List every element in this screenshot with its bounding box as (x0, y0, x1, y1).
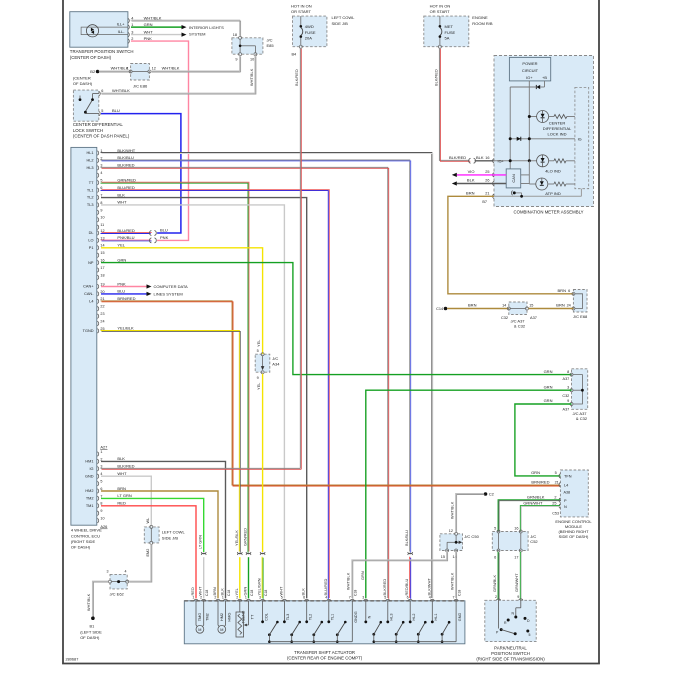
svg-text:GRN/WHT: GRN/WHT (514, 573, 519, 592)
svg-text:BLU: BLU (160, 227, 168, 232)
svg-text:TRANSFER POSITION SWITCH: TRANSFER POSITION SWITCH (70, 49, 134, 54)
meter internal B7 line (494, 195, 581, 197)
engine control module (box) (560, 470, 588, 517)
svg-text:17: 17 (514, 556, 518, 560)
svg-text:18: 18 (100, 273, 104, 277)
svg-text:(RIGHT SIDE: (RIGHT SIDE (71, 539, 96, 544)
wire GRN connector to actuator TT (248, 557, 250, 598)
svg-text:5: 5 (494, 527, 496, 531)
meter pin VIO 25 with arrow (493, 173, 494, 177)
wire WHT ECU GND down to left cowl side J/B (101, 476, 151, 525)
svg-text:GNDG: GNDG (354, 611, 358, 622)
svg-text:TFN: TFN (564, 475, 572, 479)
svg-text:LO: LO (88, 239, 93, 243)
svg-text:SIDE J/B: SIDE J/B (162, 535, 179, 540)
svg-text:WHT/BLK: WHT/BLK (449, 572, 454, 590)
svg-text:IG: IG (578, 137, 582, 141)
LED 4LO indicator (537, 155, 549, 167)
svg-text:GRN: GRN (243, 587, 248, 596)
svg-text:M: M (198, 628, 201, 632)
meter inner IG rail box (575, 87, 589, 188)
svg-text:BLK: BLK (117, 456, 125, 461)
svg-text:B7: B7 (482, 200, 487, 204)
svg-text:BLK/WHT: BLK/WHT (426, 578, 431, 596)
svg-text:BLK/RED: BLK/RED (294, 69, 299, 86)
svg-text:HOT IN ON: HOT IN ON (430, 4, 451, 9)
svg-text:A37: A37 (563, 408, 570, 412)
svg-text:10: 10 (100, 517, 104, 521)
meter internal left rail (509, 87, 511, 169)
svg-text:25: 25 (485, 170, 489, 174)
svg-text:YEL/BLK: YEL/BLK (234, 530, 239, 546)
svg-text:DIFFERENTIAL: DIFFERENTIAL (543, 126, 572, 131)
wire BLU lock switch to ECU pin12 (101, 114, 181, 233)
svg-text:OF DASH): OF DASH) (71, 545, 91, 550)
svg-text:7: 7 (349, 596, 351, 600)
svg-text:C18: C18 (264, 590, 268, 596)
svg-text:TRANSFER SHIFT ACTUATOR: TRANSFER SHIFT ACTUATOR (294, 650, 355, 655)
svg-text:CONTROL ECU: CONTROL ECU (71, 533, 100, 538)
actuator right ground rail (374, 641, 456, 643)
junction connector J/C E86 (131, 64, 150, 81)
svg-text:IG+: IG+ (498, 159, 505, 163)
svg-text:HM2: HM2 (220, 613, 224, 621)
svg-text:PARK/NEUTRAL: PARK/NEUTRAL (494, 646, 527, 651)
svg-text:25: 25 (552, 501, 556, 505)
lamp loop wiring inside transfer position switch (81, 27, 128, 34)
wire BRN J/C A37C32 to J/C E68 pin24 (529, 308, 574, 310)
svg-text:B2: B2 (90, 69, 96, 74)
svg-text:6: 6 (568, 289, 570, 293)
svg-text:5A: 5A (445, 36, 450, 41)
svg-text:6: 6 (100, 487, 102, 491)
inline connector on LT GRN wire (201, 552, 206, 554)
svg-text:BRN: BRN (117, 486, 126, 491)
svg-text:WHT/BLK: WHT/BLK (449, 501, 454, 519)
svg-text:(CENTER REAR OF ENGINE COMPT): (CENTER REAR OF ENGINE COMPT) (287, 656, 363, 661)
svg-text:J/C E68: J/C E68 (573, 314, 588, 319)
svg-text:A27: A27 (100, 445, 107, 450)
svg-text:GRN/RED: GRN/RED (243, 528, 248, 546)
svg-text:2: 2 (554, 495, 556, 499)
junction connector J/C C52 (492, 532, 528, 551)
svg-text:BRN: BRN (468, 303, 477, 308)
svg-text:22: 22 (100, 305, 104, 309)
svg-text:TL3: TL3 (286, 614, 290, 621)
svg-text:TT: TT (250, 614, 254, 619)
svg-text:LEFT COWL: LEFT COWL (162, 530, 186, 535)
svg-text:GRN: GRN (544, 369, 553, 374)
wire BRN/RED ECU pin21 to ECM L4 (101, 301, 560, 485)
wire BRN C14 to J/C A37 C32 (447, 308, 509, 310)
wire GRN/BLK ECM P to J/C C52 (498, 500, 560, 531)
svg-text:17: 17 (100, 266, 104, 270)
svg-text:WHT/BLK: WHT/BLK (86, 593, 91, 611)
svg-text:5: 5 (555, 471, 557, 475)
svg-text:+B: +B (542, 75, 547, 80)
svg-text:LT GRN: LT GRN (117, 493, 131, 498)
wire WHT/BLK pin4 to J/C E85 (131, 20, 240, 36)
svg-text:WL: WL (146, 518, 150, 524)
svg-text:4LO IND: 4LO IND (545, 168, 561, 173)
junction connector J/C E85 (232, 38, 263, 54)
actuator right contact leads (365, 601, 367, 621)
svg-text:OF DASH): OF DASH) (73, 81, 93, 86)
svg-text:SIDE J/B: SIDE J/B (332, 21, 349, 26)
border frame (62, 0, 64, 664)
svg-text:A37: A37 (563, 377, 570, 381)
4 wheel drive control ECU (box) (71, 147, 97, 525)
svg-text:9: 9 (517, 595, 519, 599)
wire LT GRN ECU TM2 down to connector (101, 498, 204, 552)
svg-text:C32: C32 (562, 394, 569, 398)
svg-text:5: 5 (257, 349, 259, 353)
svg-text:P: P (564, 499, 567, 503)
transfer shift actuator (box) (184, 601, 465, 644)
svg-text:20A: 20A (305, 36, 312, 41)
svg-text:ATP IND: ATP IND (545, 191, 561, 196)
svg-text:A38: A38 (564, 491, 571, 495)
svg-text:12: 12 (152, 67, 156, 71)
svg-text:A26: A26 (100, 524, 107, 529)
svg-text:FUSE: FUSE (305, 30, 316, 35)
wire YEL connector to actuator TSEND (239, 557, 241, 598)
svg-text:TL1: TL1 (87, 188, 94, 192)
svg-text:(LEFT SIDE: (LEFT SIDE (80, 630, 102, 635)
svg-text:BLU: BLU (117, 289, 125, 294)
svg-text:15: 15 (529, 304, 533, 308)
wire VIO meter pin25 (457, 174, 506, 176)
svg-text:WHT: WHT (144, 29, 154, 34)
svg-text:(CENTER: (CENTER (73, 75, 91, 80)
svg-text:& C32: & C32 (576, 416, 588, 421)
svg-text:1: 1 (100, 450, 102, 454)
svg-text:GND: GND (458, 613, 462, 622)
svg-text:TL2: TL2 (309, 614, 313, 621)
svg-text:GRN: GRN (544, 384, 553, 389)
ECU connector A27 pins 1-25 (97, 151, 98, 155)
svg-text:WHT: WHT (198, 586, 203, 595)
wire BLK/BLU ECU pin2 down to connector (101, 160, 410, 552)
svg-text:GRN/BLK: GRN/BLK (527, 494, 545, 499)
svg-text:GRN: GRN (360, 571, 365, 580)
svg-text:IG+: IG+ (526, 75, 533, 80)
wire BLK connector to meter IG+ (475, 160, 494, 162)
svg-text:BLU: BLU (112, 108, 120, 113)
svg-text:BLU/RED: BLU/RED (117, 185, 135, 190)
svg-text:CAN: CAN (511, 174, 516, 183)
CAN block right leads (521, 174, 530, 176)
resistor for 4LO LED (554, 159, 566, 163)
actuator left contact leads (262, 601, 264, 621)
meter pin IG+ 16 (493, 159, 494, 163)
svg-text:9: 9 (100, 509, 102, 513)
wire GRN/WHT ECM N to J/C C52 (520, 506, 560, 531)
svg-text:C53: C53 (552, 512, 559, 516)
inline connector at ECU pin12 (150, 231, 152, 236)
inline connector at ECU pin13 (150, 238, 152, 243)
wire WHT pin3 to system arrow (131, 34, 182, 36)
svg-text:YEL: YEL (234, 587, 239, 595)
svg-text:3: 3 (567, 385, 569, 389)
svg-text:HL1: HL1 (434, 614, 438, 621)
svg-text:BLU/RED: BLU/RED (117, 228, 135, 233)
svg-text:COMPUTER DATA: COMPUTER DATA (154, 284, 189, 289)
svg-text:2: 2 (131, 37, 133, 41)
svg-text:A34: A34 (272, 362, 280, 367)
svg-text:280687: 280687 (66, 658, 79, 662)
svg-text:8: 8 (567, 370, 569, 374)
svg-text:PNK: PNK (117, 281, 126, 286)
svg-text:21: 21 (555, 481, 559, 485)
wire GRN actuator N up to C32 pin3 (366, 390, 572, 598)
svg-text:OR START: OR START (291, 9, 311, 14)
svg-text:16: 16 (514, 527, 518, 531)
svg-text:HL3: HL3 (390, 614, 394, 621)
svg-text:21: 21 (485, 192, 489, 196)
svg-text:ENGINE: ENGINE (472, 15, 488, 20)
svg-text:N: N (564, 505, 567, 509)
meter pin BRN 21 / B7 (493, 194, 494, 198)
svg-text:2: 2 (100, 457, 102, 461)
actuator left switch arms (268, 633, 271, 636)
wire BLK ECU HM1 to actuator HMG (101, 461, 226, 598)
svg-text:GRN: GRN (531, 470, 540, 475)
meter center rail to ATP LED (528, 161, 530, 184)
svg-text:9: 9 (567, 399, 569, 403)
svg-text:M: M (220, 628, 223, 632)
svg-text:GRN/WHT: GRN/WHT (523, 500, 543, 505)
svg-text:TM1: TM1 (86, 504, 94, 508)
svg-text:TM2: TM2 (206, 613, 210, 621)
meter internal diode row (510, 138, 575, 140)
svg-text:LOCK IND: LOCK IND (548, 131, 567, 136)
svg-text:18: 18 (233, 33, 237, 37)
svg-text:BLK: BLK (476, 155, 484, 160)
wire BRN ECU HM2 to actuator HM2 (101, 491, 218, 598)
junction connector J/C A37 and C32 (second) (572, 369, 588, 410)
svg-text:CENTER DIFFERENTIAL: CENTER DIFFERENTIAL (73, 122, 124, 127)
svg-text:HL2: HL2 (412, 614, 416, 621)
svg-text:C14: C14 (436, 307, 444, 311)
arrow VIO to left (452, 173, 457, 177)
wire GRN/WHT J/C C52 to PNP switch (519, 552, 521, 600)
ground point B1 (91, 616, 95, 620)
actuator motor 1 (195, 601, 197, 625)
svg-text:J/C: J/C (267, 38, 273, 43)
svg-text:POSITION SWITCH: POSITION SWITCH (491, 651, 530, 656)
junction connector J/C E62 (110, 574, 127, 589)
svg-text:HL2: HL2 (86, 159, 93, 163)
svg-text:C18: C18 (250, 590, 254, 596)
svg-text:LEFT COWL: LEFT COWL (332, 15, 356, 20)
svg-text:23: 23 (100, 312, 104, 316)
svg-text:J/C C50: J/C C50 (464, 534, 479, 539)
wire BRN meter pin21 to J/C E68 pin6 (448, 196, 574, 293)
svg-text:FUSE: FUSE (445, 30, 456, 35)
wire RED ECU TM1 to actuator TMG (101, 506, 196, 599)
resistor for center diff lock LED (554, 115, 567, 119)
svg-text:IG: IG (89, 467, 93, 471)
inline connector on YEL wire (260, 552, 265, 554)
svg-text:C18: C18 (457, 590, 461, 596)
svg-text:J/C E86: J/C E86 (133, 83, 148, 88)
svg-text:E85: E85 (267, 43, 275, 48)
svg-text:4 WHEEL DRIVE: 4 WHEEL DRIVE (71, 528, 102, 533)
svg-text:WHT/BLK: WHT/BLK (144, 15, 162, 20)
svg-text:3: 3 (107, 570, 109, 574)
wire PNK pin2 down to ECU pin13 (131, 41, 189, 240)
inline connector on BLK/BLU wire (408, 552, 413, 554)
svg-text:C18: C18 (205, 590, 209, 596)
wire BLK/RED 4WD fuse down to ECU IG (299, 48, 301, 468)
svg-text:RED: RED (190, 587, 195, 595)
svg-text:ILL+: ILL+ (117, 22, 126, 27)
svg-text:HM2: HM2 (85, 489, 93, 493)
svg-text:EM2: EM2 (146, 549, 150, 557)
svg-text:CAN-: CAN- (84, 292, 94, 296)
wire BLK ECU pin7 to actuator TL2 (101, 198, 307, 599)
transfer position switch (box) (70, 12, 128, 48)
ground-side connector C14 (444, 307, 448, 311)
svg-text:HM1: HM1 (85, 460, 93, 464)
wire WHT/BLK J/C E62 to ground B1 (92, 581, 108, 616)
svg-text:16: 16 (485, 156, 489, 160)
svg-text:INTERIOR LIGHTS: INTERIOR LIGHTS (189, 25, 224, 30)
svg-text:C32: C32 (501, 316, 508, 320)
svg-text:4: 4 (100, 472, 102, 476)
svg-text:16: 16 (100, 259, 104, 263)
arrow lines system (147, 292, 152, 296)
inline connector on meter feed (469, 158, 471, 163)
illumination lamp (86, 25, 98, 37)
wire PNK/BLU ECU pin13 stub (101, 239, 151, 241)
in-line connector C2 (484, 492, 488, 496)
center differential lock switch (box) (73, 90, 98, 121)
svg-text:TGND: TGND (83, 329, 94, 333)
wire YEL/BLK ECU pin25 down to connector (101, 330, 240, 551)
transfer position switch pins (128, 18, 129, 22)
svg-text:C2: C2 (489, 492, 495, 497)
wire BLK meter pin26 (457, 183, 506, 185)
svg-text:24: 24 (100, 319, 104, 323)
wire WHT/BLK J/C E85 pin10 down to lock switch (101, 55, 255, 93)
svg-text:P1: P1 (89, 246, 94, 250)
svg-text:9: 9 (257, 376, 259, 380)
svg-text:15: 15 (100, 251, 104, 255)
inline connector on GRN/RED wire (246, 552, 251, 554)
svg-text:4: 4 (125, 570, 127, 574)
lock switch contacts (93, 93, 99, 95)
wire WHT/BLK J/C E86 to J/C E85 drop (150, 70, 239, 72)
wire BLU ECU pin20 to lines system (101, 293, 147, 295)
svg-text:CIRCUIT: CIRCUIT (522, 68, 539, 73)
wire WHT/BLK J/C C50 pin15 to actuator GNDG (352, 552, 447, 598)
svg-text:J/C E62: J/C E62 (110, 592, 125, 597)
svg-text:WHT/BLK: WHT/BLK (249, 68, 254, 86)
svg-text:BRN: BRN (212, 587, 217, 595)
svg-text:BRN: BRN (466, 191, 475, 196)
svg-text:CENTER: CENTER (549, 120, 566, 125)
wire WHT/BLK C2 to J/C C50 (456, 494, 484, 532)
inline connector on YEL/BLK wire (237, 552, 242, 554)
junction connector J/C A34 (255, 354, 270, 372)
wire GRN J/C pin9 to ECM TFN (515, 404, 572, 476)
svg-text:TL1: TL1 (331, 614, 335, 621)
svg-text:ILL-: ILL- (118, 29, 126, 34)
svg-text:LOCK SWITCH: LOCK SWITCH (73, 128, 103, 133)
actuator position sensor TSEND (239, 601, 241, 612)
svg-text:BLK/RED: BLK/RED (433, 69, 438, 86)
arrow interior lights (182, 25, 187, 29)
arrow computer data (147, 284, 152, 288)
svg-text:A37: A37 (530, 316, 537, 320)
svg-text:7: 7 (100, 494, 102, 498)
svg-text:1: 1 (126, 67, 128, 71)
svg-text:12: 12 (449, 529, 453, 533)
svg-text:BRN: BRN (558, 288, 567, 293)
actuator motor 2 (217, 601, 219, 625)
svg-text:24: 24 (567, 304, 571, 308)
svg-text:9: 9 (235, 58, 237, 62)
wire WHT ECU pin8 to actuator TL3 (101, 205, 284, 598)
svg-text:DL: DL (89, 231, 95, 235)
svg-text:4: 4 (100, 171, 102, 175)
svg-text:TL2: TL2 (87, 196, 94, 200)
CAN block (509, 168, 511, 170)
combination meter assembly (box) (494, 56, 594, 207)
svg-text:14: 14 (100, 244, 104, 248)
svg-text:C18: C18 (227, 590, 231, 596)
wire YEL ECU pin14 down to J/C A34 (101, 248, 263, 354)
svg-text:1: 1 (131, 23, 133, 27)
svg-text:TM2: TM2 (86, 497, 94, 501)
svg-text:SYSTEM: SYSTEM (189, 32, 206, 37)
svg-text:WHT: WHT (117, 200, 127, 205)
wire WHT connector to actuator TM2 (203, 557, 205, 598)
svg-text:BLK: BLK (467, 178, 475, 183)
wire WHT/BLK J/B to J/C E62 (128, 544, 151, 581)
svg-text:PNK: PNK (144, 36, 153, 41)
svg-text:26: 26 (485, 179, 489, 183)
svg-text:10: 10 (100, 216, 104, 220)
svg-text:8: 8 (100, 201, 102, 205)
svg-text:7: 7 (453, 596, 455, 600)
actuator right switch arms (372, 633, 375, 636)
svg-text:4WD: 4WD (305, 24, 314, 29)
svg-text:RED: RED (117, 501, 126, 506)
svg-text:C18: C18 (354, 590, 358, 596)
meter internal IG+ rail (528, 81, 530, 161)
power circuit block (509, 57, 550, 81)
svg-text:YEL/GRN: YEL/GRN (257, 578, 262, 595)
wire BLK/RED ECU IG joining 4WD fuse feed (101, 467, 301, 469)
svg-text:(CENTER OF DASH): (CENTER OF DASH) (70, 55, 112, 60)
svg-text:WHT/BLK: WHT/BLK (112, 88, 130, 93)
wire BLK/WHT ECU pin1 to actuator HL1 (101, 153, 432, 598)
wire WHT/BLK J/C C50 pin14 to actuator GND (455, 552, 457, 598)
wire BLK/RED ECU pin3 to actuator HL3 (101, 167, 388, 598)
meter pin BLK 26 with arrow (493, 181, 494, 185)
svg-text:N: N (368, 615, 372, 618)
svg-text:NP: NP (88, 261, 94, 265)
wire BLK/RED MET fuse to meter (439, 48, 469, 161)
svg-text:OF DASH): OF DASH) (80, 635, 100, 640)
svg-text:BLK/RED: BLK/RED (382, 579, 387, 596)
svg-text:8: 8 (100, 502, 102, 506)
svg-text:YEL: YEL (256, 382, 261, 390)
svg-text:7: 7 (100, 193, 102, 197)
